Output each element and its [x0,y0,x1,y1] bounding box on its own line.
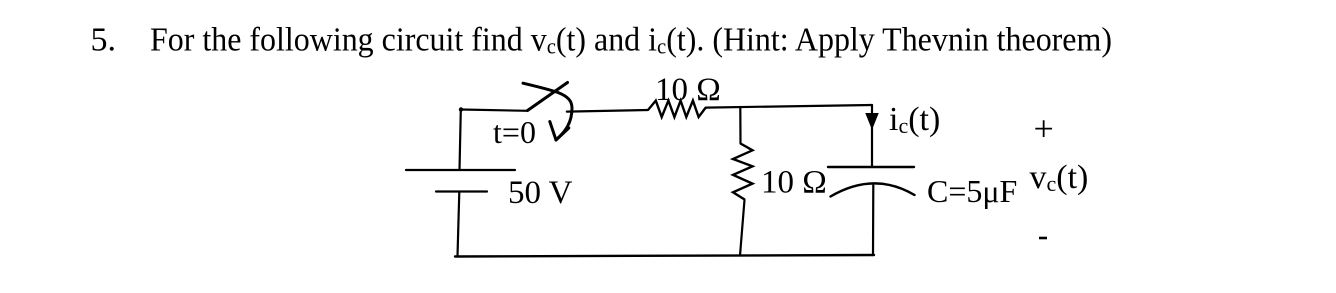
svg-text:For the following circuit find: For the following circuit find vc(t) and… [150,22,1112,59]
svg-text:50 V: 50 V [508,175,573,211]
problem statement text [91,22,1113,59]
node: top-left corner dot [459,107,463,111]
label - (vc polarity) [1039,237,1047,240]
battery short plate (-) [436,190,487,192]
closing-motion arc [523,83,572,139]
wire: top-left horizontal to switch pivot [461,110,528,111]
wire: right branch vertical (top rail to capacitor) [871,105,873,167]
svg-text:10 Ω: 10 Ω [655,72,721,108]
capacitor C bottom curved plate [831,183,915,196]
switch SW (open blade, closes at t=0) [523,83,572,141]
wire: R2 bottom to bottom rail [740,200,745,256]
wire: middle branch drop from top rail [739,107,741,144]
svg-text:10 Ω: 10 Ω [761,165,827,201]
svg-text:C=5μF: C=5μF [927,173,1017,209]
wire: resistor R1 to top-right corner [706,105,872,108]
switch blade [528,83,568,111]
capacitor C top plate [828,166,914,168]
battery V1 50 V [406,170,515,192]
svg-text:5.: 5. [91,22,117,59]
wire: capacitor bottom to bottom rail [872,185,874,255]
resistor R1 10 ohm (horizontal zigzag) [648,101,706,117]
wire: switch right contact to resistor R1 [567,110,648,112]
wire: bottom rail [455,255,874,257]
svg-text:t=0: t=0 [493,114,536,150]
svg-text:ic(t): ic(t) [889,101,940,138]
arrowhead barb right [556,128,569,140]
svg-text:+: + [1034,109,1054,149]
wire: left vertical bottom (battery - to bottom-left corner) [458,192,460,257]
arrowhead barb left [550,122,556,141]
wire: left vertical top (battery + to top-left corner) [460,110,461,171]
battery long plate (+) [406,169,515,171]
resistor R2 10 ohm (vertical zigzag) [733,144,753,200]
svg-text:vc(t): vc(t) [1030,159,1089,196]
current arrow ic(t) [866,114,878,129]
